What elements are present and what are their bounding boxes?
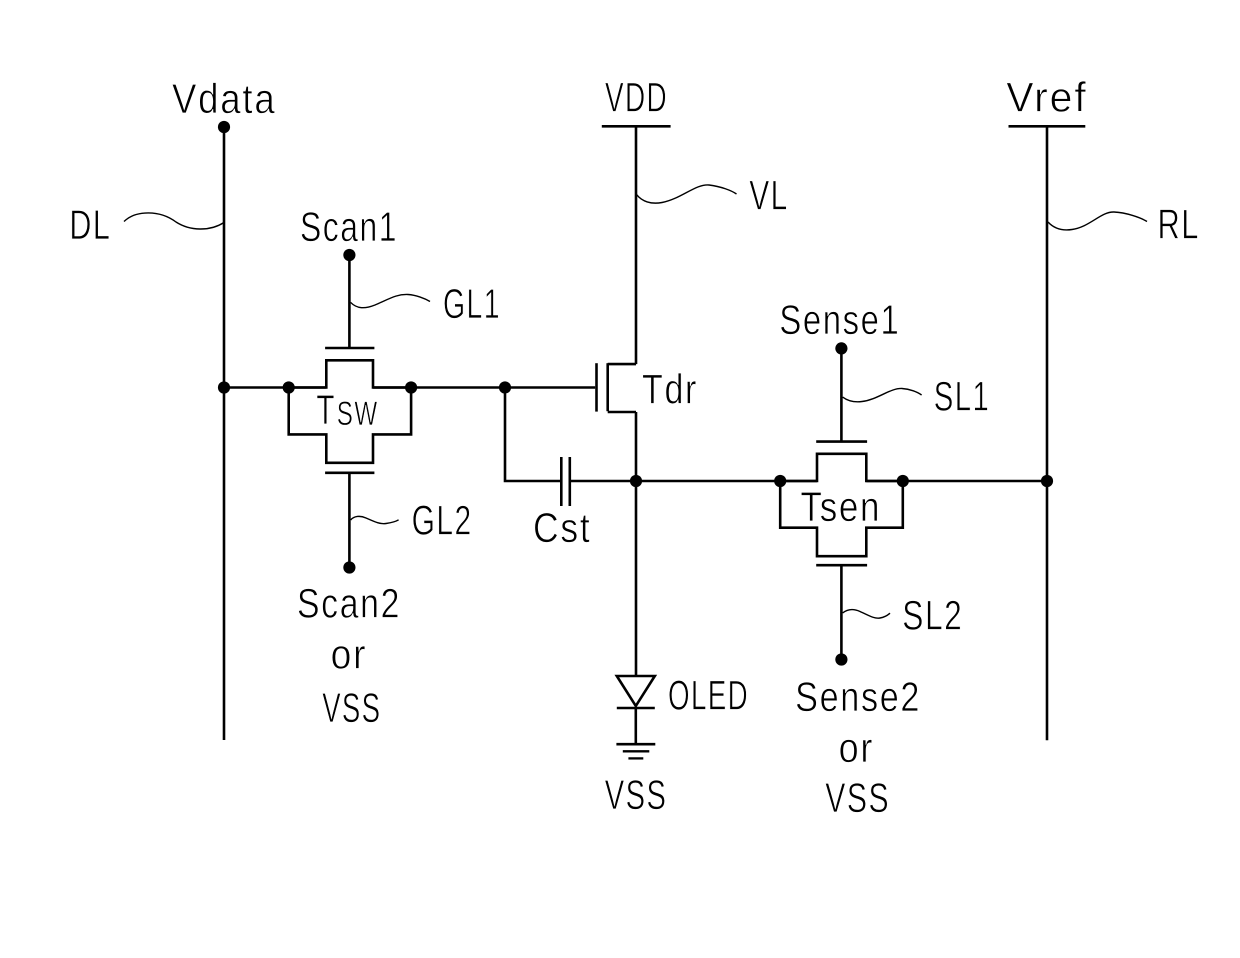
svg-text:Scan1: Scan1	[300, 203, 398, 250]
svg-text:DL: DL	[69, 201, 111, 248]
node Scan1 label	[300, 203, 398, 250]
diode OLED cathode bar	[617, 707, 655, 710]
wire Scan1 to Tsw top gate	[348, 255, 351, 348]
svg-text:OLED: OLED	[668, 672, 749, 719]
svg-text:VSS: VSS	[605, 771, 668, 818]
transistor Tsen top gate bar	[816, 440, 867, 443]
wire Cst to Tsen left	[570, 480, 817, 483]
svg-text:RL: RL	[1158, 201, 1201, 248]
transistor Tsen cross-shaped body	[780, 454, 903, 556]
wire Tsw bottom gate to Scan2	[348, 473, 351, 568]
node GL2 label	[412, 497, 473, 544]
node GL1 label	[443, 280, 501, 327]
wire VL: VDD to Tdr drain	[635, 126, 638, 364]
svg-text:VL: VL	[749, 172, 789, 219]
ground symbol	[616, 744, 655, 758]
transistor Tsw top gate bar	[325, 347, 374, 350]
svg-text:GL2: GL2	[412, 497, 473, 544]
node Scan2 or VSS label	[297, 580, 401, 732]
node Sense2 terminal dot	[835, 653, 847, 665]
diode OLED label	[668, 672, 749, 719]
svg-text:VSS: VSS	[825, 774, 890, 821]
transistor Tsen bottom gate bar	[816, 564, 867, 567]
diode OLED anode triangle	[617, 676, 655, 706]
node Vref label	[1006, 74, 1088, 121]
svg-text:Scan2: Scan2	[297, 580, 401, 627]
node RL label	[1158, 201, 1201, 248]
svg-text:Tsen: Tsen	[801, 483, 882, 530]
wire row1 left: DL to Tsw	[224, 386, 326, 389]
svg-text:Vref: Vref	[1006, 74, 1088, 121]
node Sense1 terminal dot	[835, 342, 847, 354]
svg-text:SW: SW	[337, 395, 379, 433]
wire reference line RL vertical	[1046, 126, 1049, 740]
junction dot Tsen right corner	[897, 475, 909, 487]
junction dot Tsw right drain corner	[405, 381, 417, 393]
wire Tsen right to Vref line RL	[866, 480, 1047, 483]
node Vdata label	[172, 75, 277, 122]
transistor Tsw bottom gate bar	[325, 471, 374, 474]
wire Sense1 to Tsen top gate	[840, 348, 843, 441]
wire GL1 leader squiggle	[351, 294, 431, 307]
node VL label	[749, 172, 789, 219]
wire node A down to Cst	[505, 388, 561, 482]
svg-text:GL1: GL1	[443, 280, 501, 327]
node SL2 label	[902, 592, 963, 639]
transistor Tdr label	[642, 366, 698, 413]
junction dot on DL at row1	[218, 381, 230, 393]
junction dot on RL at row2	[1041, 475, 1053, 487]
wire Tsen bottom gate to Sense2	[840, 565, 843, 659]
transistor Tdr source stub	[608, 411, 636, 414]
transistor Tsen label	[801, 483, 882, 530]
wire SL2 leader squiggle	[843, 610, 890, 619]
svg-text:Sense2: Sense2	[795, 673, 921, 720]
svg-text:VSS: VSS	[322, 684, 381, 731]
transistor Tdr drain stub	[608, 363, 636, 366]
node Sense1 label	[779, 296, 900, 343]
svg-text:Cst: Cst	[533, 504, 591, 551]
junction dot Tsen left corner	[774, 475, 786, 487]
node VDD supply bar	[602, 125, 671, 128]
svg-text:or: or	[331, 631, 368, 678]
capacitor Cst left plate	[560, 457, 563, 506]
svg-text:Vdata: Vdata	[172, 75, 277, 122]
node Scan1 terminal dot	[343, 249, 355, 261]
transistor Tsw label	[316, 386, 378, 433]
svg-text:or: or	[839, 724, 875, 771]
node VDD label	[605, 74, 668, 121]
svg-text:Tdr: Tdr	[642, 366, 698, 413]
node Scan2 terminal dot	[343, 561, 355, 573]
wire RL leader squiggle	[1048, 212, 1147, 230]
junction dot node B (Tdr source / OLED anode)	[630, 475, 642, 487]
transistor Tsw cross-shaped body	[289, 360, 411, 463]
node Vref supply bar	[1009, 125, 1086, 128]
node Sense2 or VSS label	[795, 673, 921, 821]
wire GL2 leader squiggle	[351, 516, 399, 523]
node Vdata terminal dot	[218, 121, 230, 133]
svg-text:SL2: SL2	[902, 592, 963, 639]
svg-text:VDD: VDD	[605, 74, 668, 121]
transistor Tdr channel bar	[606, 363, 609, 411]
wire DL leader squiggle	[124, 213, 224, 229]
svg-text:Sense1: Sense1	[779, 296, 900, 343]
svg-text:T: T	[316, 386, 336, 433]
node DL label	[69, 201, 111, 248]
wire OLED cathode to ground	[634, 708, 637, 744]
wire row1 right: Tsw to Tdr gate	[373, 386, 595, 389]
junction dot Tsw left source corner	[283, 381, 295, 393]
wire SL1 leader squiggle	[843, 388, 922, 401]
node SL1 label	[934, 373, 991, 420]
wire data line DL vertical	[223, 127, 226, 740]
wire Tdr source down to node B	[635, 412, 638, 676]
transistor Tdr gate bar	[595, 363, 598, 411]
svg-text:SL1: SL1	[934, 373, 991, 420]
wire VL leader squiggle	[637, 185, 737, 203]
junction dot node A (Tdr gate / Cst top)	[499, 381, 511, 393]
node VSS label below ground	[605, 771, 668, 818]
capacitor Cst right plate	[568, 457, 571, 506]
capacitor Cst label	[533, 504, 591, 551]
